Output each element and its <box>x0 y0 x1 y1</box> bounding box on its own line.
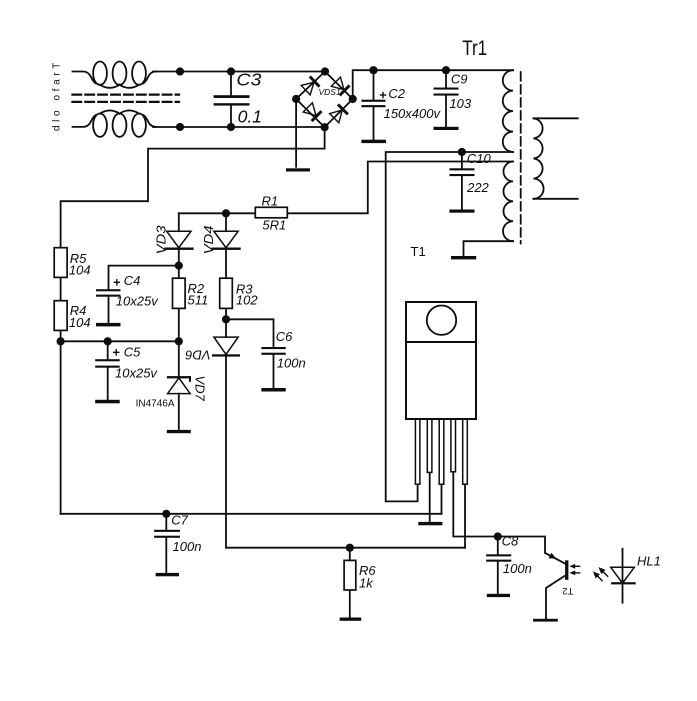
svg-text:C8: C8 <box>502 534 519 549</box>
svg-text:C4: C4 <box>124 273 141 288</box>
svg-text:104: 104 <box>69 315 91 330</box>
svg-text:1k: 1k <box>359 576 374 591</box>
svg-text:0.1: 0.1 <box>238 107 263 127</box>
svg-text:C5: C5 <box>124 345 141 360</box>
svg-text:104: 104 <box>69 263 91 278</box>
svg-text:102: 102 <box>236 293 258 308</box>
svg-text:103: 103 <box>449 96 471 111</box>
svg-text:C10: C10 <box>467 151 492 166</box>
svg-text:T2: T2 <box>562 585 573 596</box>
svg-text:10x25v: 10x25v <box>116 293 159 308</box>
svg-text:C9: C9 <box>451 72 468 87</box>
svg-text:10x25v: 10x25v <box>115 365 158 380</box>
svg-text:100n: 100n <box>503 561 532 576</box>
svg-text:C3: C3 <box>236 69 261 89</box>
svg-text:VD3: VD3 <box>154 225 169 255</box>
svg-text:IN4746A: IN4746A <box>136 399 175 410</box>
svg-text:222: 222 <box>466 180 489 195</box>
svg-text:HL1: HL1 <box>637 553 661 568</box>
svg-text:C7: C7 <box>171 512 188 527</box>
svg-text:100n: 100n <box>277 355 306 370</box>
svg-text:T1: T1 <box>411 244 426 259</box>
svg-text:R1: R1 <box>262 193 279 208</box>
svg-text:150x400v: 150x400v <box>384 106 442 121</box>
svg-text:511: 511 <box>188 292 209 307</box>
svg-text:VDS1: VDS1 <box>319 87 341 97</box>
svg-text:Tr1: Tr1 <box>462 36 487 60</box>
svg-text:VD6: VD6 <box>185 347 211 362</box>
svg-text:100n: 100n <box>173 539 202 554</box>
svg-text:VD7: VD7 <box>193 376 208 402</box>
svg-text:VD4: VD4 <box>201 225 216 254</box>
svg-text:C2: C2 <box>388 86 405 101</box>
svg-text:C6: C6 <box>276 329 293 344</box>
svg-text:dlo ofarT: dlo ofarT <box>51 59 62 131</box>
svg-text:5R1: 5R1 <box>262 217 286 232</box>
